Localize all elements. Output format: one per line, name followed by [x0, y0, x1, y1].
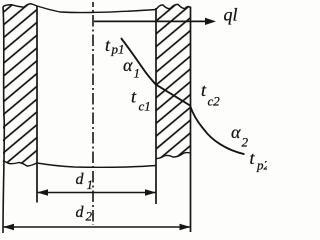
svg-text:2: 2 [86, 209, 93, 224]
svg-text:2: 2 [242, 135, 249, 150]
svg-text:t: t [105, 35, 111, 55]
label t_c1 [131, 87, 151, 114]
svg-text:c2: c2 [208, 94, 221, 109]
svg-text:ql: ql [224, 5, 238, 25]
label d_1 [76, 171, 94, 192]
svg-text:α: α [231, 122, 241, 142]
wall section W1 (left pipe wall, hatched) [3, 4, 37, 166]
label d_2 [76, 204, 93, 224]
label alpha_1 [123, 55, 140, 81]
svg-text:d: d [76, 171, 85, 188]
dimension line d1 (y=192.5) [37, 189, 156, 195]
svg-text:c1: c1 [139, 99, 151, 114]
heat flux arrow ql [94, 18, 216, 25]
svg-text:t: t [250, 148, 256, 168]
wall W2 outer edge + extension line for d2 (x=190.5) [190, 7, 192, 233]
svg-text:1: 1 [134, 66, 141, 81]
wall W2 inner edge + extension line for d1 (x=156) [155, 8, 157, 204]
temperature curve (tp1 -> wall -> tp2) [121, 38, 245, 154]
bottom break line between walls [37, 163, 156, 167]
label alpha_2 [231, 122, 249, 150]
svg-text:α: α [123, 55, 133, 75]
wall section W2 (right pipe wall, hatched) [156, 4, 190, 158]
wall W1 outer edge + extension line for d2 (x=3) [3, 7, 4, 234]
svg-text:1: 1 [87, 177, 94, 192]
label t_p2 [250, 148, 271, 173]
centerline (dash-dot axis, x=93) [92, 2, 94, 225]
svg-text:p2: p2 [256, 158, 267, 173]
svg-text:t: t [131, 87, 137, 107]
top break line between walls [37, 6, 156, 13]
wall W1 inner edge + extension line for d1 (x=37) [36, 6, 38, 203]
svg-text:d: d [76, 204, 85, 221]
svg-text:t: t [201, 80, 207, 100]
label t_c2 [201, 80, 220, 109]
dimension line d2 (y=227) [3, 224, 191, 230]
label t_p1 [105, 35, 125, 57]
